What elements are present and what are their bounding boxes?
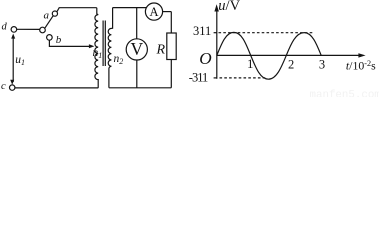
svg-text:1: 1 xyxy=(247,57,253,71)
svg-text:c: c xyxy=(1,81,6,92)
svg-text:-311: -311 xyxy=(189,70,209,84)
svg-text:A: A xyxy=(149,5,158,19)
svg-text:d: d xyxy=(2,21,8,32)
svg-text:O: O xyxy=(199,49,212,68)
svg-text:u1: u1 xyxy=(15,54,25,67)
svg-text:a: a xyxy=(44,10,50,22)
svg-text:t/10-2s: t/10-2s xyxy=(346,59,376,73)
svg-text:V: V xyxy=(130,39,143,59)
svg-text:u/V: u/V xyxy=(218,0,240,14)
svg-text:b: b xyxy=(56,34,62,46)
svg-text:311: 311 xyxy=(193,24,211,38)
svg-text:manfen5.com: manfen5.com xyxy=(310,89,379,97)
svg-text:n1: n1 xyxy=(93,47,103,60)
svg-text:R: R xyxy=(156,43,166,58)
svg-text:2: 2 xyxy=(288,57,294,71)
svg-text:n2: n2 xyxy=(114,53,124,66)
svg-text:3: 3 xyxy=(319,57,325,71)
